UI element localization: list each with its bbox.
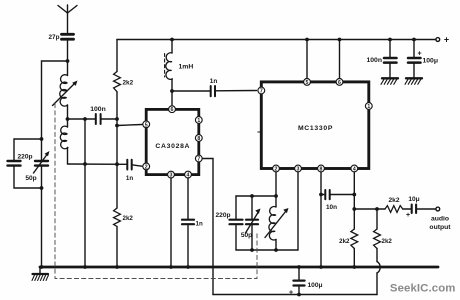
svg-text:5: 5 <box>306 80 309 86</box>
svg-text:5: 5 <box>145 122 148 128</box>
node x117 y125.5 <box>115 124 119 128</box>
svg-text:6: 6 <box>171 107 174 113</box>
capacitor 100n (supply decoupling) <box>367 40 397 78</box>
node rail 100u <box>412 38 416 42</box>
wire hop over ground bus <box>377 262 380 274</box>
node bottom row x117 <box>115 162 119 166</box>
node bus x321 <box>319 265 323 269</box>
variable capacitor 50p (detector tank) <box>241 196 261 250</box>
capacitor 10u (audio coupling) <box>406 196 420 219</box>
wire 100n to node x117 <box>101 118 117 120</box>
antenna <box>58 5 77 33</box>
node A (antenna/tank junction) <box>66 59 70 63</box>
pin 7 MC1330P <box>258 87 265 94</box>
wire left tank top <box>14 139 42 161</box>
svg-text:7: 7 <box>260 89 263 95</box>
node 10n left <box>319 193 323 197</box>
pin 5 CA3028A <box>143 121 150 128</box>
node bus x117 <box>115 265 119 269</box>
IC MC1330P <box>258 82 369 169</box>
node coil bottom <box>274 248 278 252</box>
resistor 2k2 (right, to bottom loop) <box>374 209 393 262</box>
wire node A to left column <box>42 61 68 139</box>
wire pin 3 MC1330P to tank bottom <box>297 172 299 250</box>
svg-text:1mH: 1mH <box>179 64 194 71</box>
pin 8 CA3028A <box>195 135 202 142</box>
svg-text:+: + <box>406 212 410 219</box>
variable capacitor 50p (antenna tank) <box>25 139 49 182</box>
dashed gang line (tuning) <box>55 104 257 279</box>
pin 6 MC1330P <box>336 79 343 86</box>
ground symbol (main) <box>32 267 49 281</box>
node audio line left <box>352 207 356 211</box>
wire x117 column upper <box>116 92 118 208</box>
capacitor 100n <box>90 106 106 124</box>
pin 4 CA3028A <box>185 171 192 178</box>
supply terminal + <box>436 35 449 45</box>
pin 8 MC1330P <box>318 165 325 172</box>
node rail pin6 <box>338 38 342 42</box>
wire pin 6 to rail <box>339 40 341 79</box>
pin 4 MC1330P <box>351 165 358 172</box>
node x85 top <box>83 117 87 121</box>
node coil tap <box>66 117 70 121</box>
svg-text:10n: 10n <box>326 204 337 211</box>
svg-text:2k2: 2k2 <box>123 80 134 87</box>
svg-text:SeekIC.com: SeekIC.com <box>390 283 456 295</box>
svg-text:100n: 100n <box>90 106 106 113</box>
wire pin 7 CA3028A to bottom loop <box>202 159 213 295</box>
svg-text:1n: 1n <box>126 175 133 182</box>
wire 2k2 to 10u <box>403 208 411 210</box>
svg-text:audio: audio <box>431 216 449 223</box>
wire 1mH to 1n <box>172 90 210 92</box>
capacitor 100u (bottom electrolytic) <box>289 267 323 297</box>
svg-text:1: 1 <box>367 104 370 110</box>
capacitor 1n (to pin 2) <box>126 160 133 182</box>
pin 3 MC1330P <box>295 165 302 172</box>
node rail 100n <box>388 38 392 42</box>
variable inductor (detector tank) <box>265 207 289 250</box>
pin 3 CA3028A <box>168 171 175 178</box>
node 50p bottom <box>250 248 254 252</box>
pin 5 MC1330P <box>304 79 311 86</box>
resistor 2k2 (audio series) <box>385 197 403 212</box>
ground (under 100u) <box>405 78 422 84</box>
variable inductor (antenna coil primary) <box>53 61 78 127</box>
svg-text:27p: 27p <box>48 34 59 41</box>
wire audio line <box>354 208 385 210</box>
wire to pin 5 <box>117 125 142 126</box>
wire 1n to MC1330P pin 7 <box>215 90 257 92</box>
svg-text:1n: 1n <box>196 221 203 228</box>
wire x85 column <box>84 119 86 267</box>
node bus x354 <box>352 265 356 269</box>
node tank top <box>274 194 278 198</box>
svg-text:50p: 50p <box>241 232 252 239</box>
wire right 2k2 to bottom loop <box>376 273 378 295</box>
wire coil tap row <box>68 118 96 120</box>
svg-text:+: + <box>289 290 293 297</box>
capacitor 1n (coupling to pin 7) <box>210 78 218 96</box>
svg-text:2k2: 2k2 <box>388 197 399 204</box>
svg-text:output: output <box>429 224 451 231</box>
wire 1n to pin 2 <box>132 165 142 166</box>
pin 1 MC1330P <box>365 103 372 110</box>
pin 2 MC1330P <box>273 165 280 172</box>
wire detector tank top <box>236 195 276 197</box>
wire antenna to node A <box>67 41 69 61</box>
ground (under 100n) <box>381 78 398 84</box>
op-amp/IC CA3028A <box>146 109 199 174</box>
resistor 2k2 (left load to ground) <box>339 209 358 267</box>
svg-text:100μ: 100μ <box>423 58 439 65</box>
pin 1 CA3028A <box>195 117 202 124</box>
svg-text:220p: 220p <box>215 212 230 219</box>
svg-text:8: 8 <box>197 136 200 142</box>
node audio line x377 <box>375 207 379 211</box>
capacitor 1n (pin 4 decoupling) <box>182 220 203 228</box>
node rail pin5 <box>305 38 309 42</box>
svg-text:2: 2 <box>145 164 148 170</box>
svg-text:1n: 1n <box>210 78 218 85</box>
node bus x188 <box>186 265 190 269</box>
wire 1n to ground bus <box>187 225 189 268</box>
capacitor 220p (antenna tank) <box>8 154 33 166</box>
capacitor 10n <box>321 190 354 211</box>
capacitor 27p <box>48 34 73 41</box>
node 50p top <box>250 194 254 198</box>
svg-text:7: 7 <box>197 157 200 163</box>
capacitor 100u (supply electrolytic) <box>408 40 438 78</box>
audio output terminal <box>429 207 451 231</box>
node left tank bottom <box>40 186 44 190</box>
svg-text:50p: 50p <box>25 175 36 182</box>
wire pin 5 to rail <box>306 40 308 79</box>
svg-text:100μ: 100μ <box>308 282 323 289</box>
wire pin 2 MC1330P to detector tank <box>275 172 277 207</box>
wire bottom loop <box>213 294 377 296</box>
wire secondary bottom row <box>68 163 127 165</box>
svg-text:1: 1 <box>197 118 200 124</box>
svg-text:2k2: 2k2 <box>382 238 393 245</box>
svg-text:2k2: 2k2 <box>339 238 350 245</box>
pin 6 CA3028A <box>169 106 176 113</box>
svg-text:MC1330P: MC1330P <box>298 125 333 132</box>
node bus x299 <box>297 265 301 269</box>
wire left tank bottom left branch <box>14 166 42 188</box>
wire pin 4 MC1330P down <box>353 172 355 209</box>
wire pin 4 column <box>187 178 189 220</box>
node 10n right <box>352 193 356 197</box>
svg-text:+: + <box>417 51 421 58</box>
node x117 y119 <box>115 117 119 121</box>
ground bus <box>40 266 438 269</box>
inductor 1mH with adjustable core <box>165 40 194 106</box>
node bus x171 <box>169 265 173 269</box>
pin 2 CA3028A <box>143 163 150 170</box>
pin 7 CA3028A <box>195 155 202 162</box>
svg-text:2k2: 2k2 <box>123 215 134 222</box>
wire pin 8 MC1330P to ground bus <box>320 172 322 267</box>
wire pin 3 to ground bus <box>170 178 172 267</box>
resistor 2k2 (lower left bias) <box>114 208 134 267</box>
node bottom row x85 <box>83 162 87 166</box>
wire 10u to audio terminal <box>417 208 436 210</box>
svg-text:6: 6 <box>338 80 341 86</box>
svg-text:100n: 100n <box>367 57 383 64</box>
inductor (antenna coil secondary) <box>60 126 68 164</box>
wire detector tank bottom <box>236 249 298 251</box>
node bottom loop 100u <box>297 293 301 297</box>
node left tank top <box>40 137 44 141</box>
node bus x85 <box>83 265 87 269</box>
capacitor 220p (detector tank) <box>215 196 242 250</box>
svg-text:220p: 220p <box>17 154 32 161</box>
svg-text:10μ: 10μ <box>408 196 419 203</box>
supply rail wire <box>117 39 436 41</box>
node 1mH bottom <box>170 89 174 93</box>
svg-text:+: + <box>444 35 449 45</box>
node rail 1mH <box>170 38 174 42</box>
svg-text:CA3028A: CA3028A <box>155 143 190 150</box>
node bus left end <box>40 265 44 269</box>
wire 50p bottom to ground bus <box>41 166 43 267</box>
resistor 2k2 (top, from supply rail) <box>114 40 134 92</box>
